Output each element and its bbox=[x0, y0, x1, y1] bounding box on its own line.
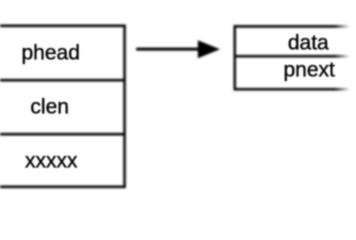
left struct box: right border bbox=[123, 25, 126, 189]
arrow head bbox=[198, 40, 220, 58]
left struct box: line under clen bbox=[0, 133, 126, 136]
right node box: line under data (fades at right) bbox=[234, 55, 350, 58]
left struct box: line under phead bbox=[0, 79, 126, 82]
arrow shaft bbox=[136, 48, 199, 51]
left struct box: top line bbox=[0, 25, 126, 28]
svg-text:phead: phead bbox=[21, 42, 79, 65]
left struct box: bottom line bbox=[0, 186, 126, 189]
svg-text:pnext: pnext bbox=[284, 58, 336, 81]
svg-text:xxxxx: xxxxx bbox=[25, 149, 78, 172]
right node box: left border bbox=[234, 25, 237, 90]
svg-text:clen: clen bbox=[30, 96, 69, 119]
right node box: top line (fades at right) bbox=[234, 25, 350, 28]
right node box: bottom line (fades at right) bbox=[234, 88, 350, 91]
svg-text:data: data bbox=[288, 32, 329, 55]
